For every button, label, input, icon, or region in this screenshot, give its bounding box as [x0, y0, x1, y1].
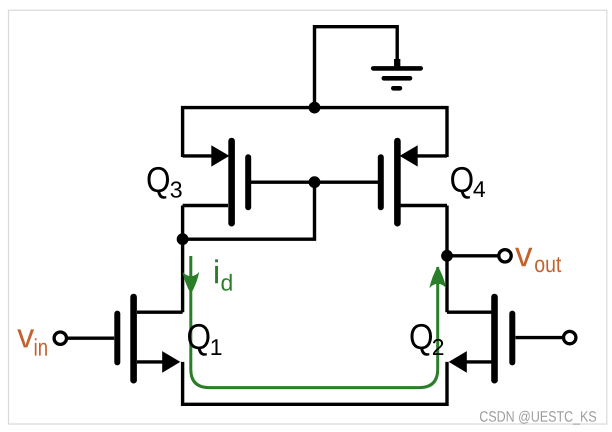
label Q3: [148, 167, 182, 199]
wire: left mid vertical (Q3 drain to Q1 drain): [181, 206, 184, 313]
transistor Q2 (NMOS, gate right): [447, 297, 512, 380]
label vin: [17, 329, 47, 355]
wire: id current loop (green): [191, 256, 438, 388]
transistor Q1 (NMOS, gate left): [117, 297, 182, 380]
wire: gate net down-left (diode connection): [183, 182, 315, 239]
ground: [373, 59, 421, 88]
label Q1: [188, 324, 221, 356]
transistor Q4 (PMOS, gate left): [381, 141, 447, 223]
node: junction dot VDD rail: [309, 102, 321, 114]
terminal: vout open circle: [499, 250, 511, 262]
arrowhead: id up arrow: [429, 266, 446, 288]
wire: top rail with Q3/Q4 source drops: [183, 108, 447, 157]
wire: vin stub: [68, 337, 114, 340]
label vout: [515, 248, 561, 273]
node: junction dot Q3 drain: [177, 233, 189, 245]
transistor Q3 (PMOS, gate right): [183, 141, 249, 223]
label Q4: [451, 167, 485, 199]
wire: gate net horizontal Q3-Q4: [251, 180, 378, 183]
arrowhead: id down arrow: [183, 272, 200, 294]
node: junction dot vout: [441, 250, 453, 262]
label id: [215, 259, 232, 290]
wire: bottom rail with Q1/Q2 source drops: [183, 362, 447, 404]
wire: vout stub: [447, 254, 499, 257]
label Q2: [411, 324, 444, 356]
terminal: vin open circle: [54, 332, 66, 344]
watermark: [480, 411, 596, 425]
terminal: Q2 gate open circle: [564, 331, 576, 343]
wire: right mid vertical (Q4 drain to Q2 drain): [445, 206, 448, 313]
wire: Q2 gate stub: [516, 336, 564, 339]
wire: VDD/top net from ground stub to left drop: [315, 27, 398, 108]
node: junction dot gate net: [309, 176, 321, 188]
